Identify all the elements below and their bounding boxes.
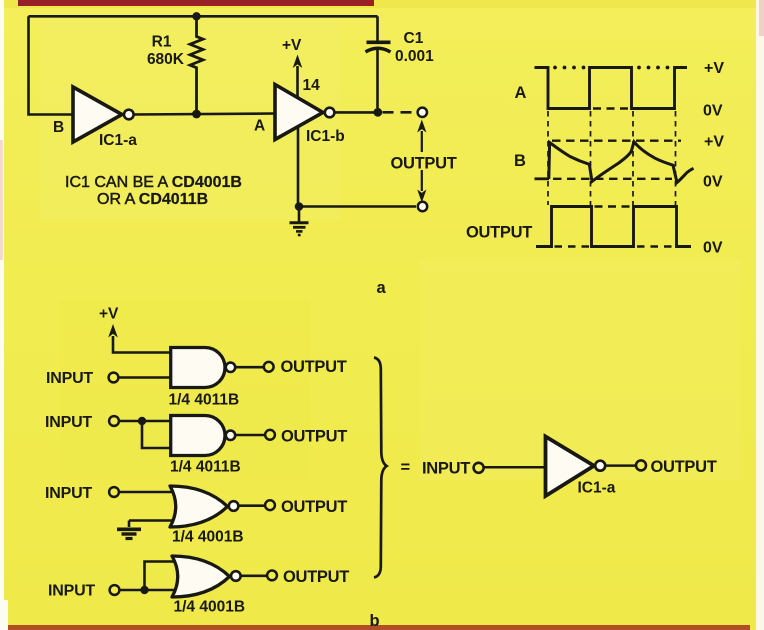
svg-text:INPUT: INPUT (48, 583, 95, 600)
node junction at ground (295, 202, 304, 211)
svg-text:1/4 4011B: 1/4 4011B (169, 392, 240, 409)
gate G4 output bubble (231, 571, 241, 581)
wire input to inverter IC1-a equivalent (484, 466, 546, 469)
waveform B trace (RC exponential) (549, 142, 694, 183)
terminal input row 1 (109, 373, 119, 383)
terminal output row 1 (264, 362, 274, 372)
inverter IC1-a output bubble (124, 110, 134, 120)
terminal input row 2 (109, 416, 119, 426)
svg-text:INPUT: INPUT (45, 485, 92, 502)
timing dashed vertical line t1 (547, 111, 549, 205)
svg-text:0V: 0V (703, 174, 723, 191)
svg-text:OUTPUT: OUTPUT (283, 568, 349, 586)
svg-text:0.001: 0.001 (395, 48, 434, 65)
waveform OUTPUT dashed high reference (595, 205, 632, 207)
inverter IC1-a (triangle) (73, 87, 122, 142)
svg-text:IC1-a: IC1-a (99, 132, 137, 149)
wire input row 2 to G2 top input (119, 420, 171, 423)
gate G1 output bubble (226, 363, 235, 372)
waveform A trace (535, 68, 688, 109)
inverter equivalent output bubble (595, 461, 605, 471)
terminal input equivalent (474, 463, 484, 473)
svg-text:b: b (370, 612, 380, 630)
terminal output top (open circle) (418, 108, 427, 117)
svg-text:INPUT: INPUT (45, 414, 92, 431)
inverter IC1-b output bubble (325, 108, 335, 118)
wire dashed node to output terminal (383, 111, 417, 114)
timing dashed vertical line t2 (590, 111, 592, 205)
wire G3 bottom input to ground (129, 519, 177, 522)
waveform B dashed 0V reference (553, 178, 672, 180)
wire inverter output (606, 464, 635, 467)
wire feedback left vertical to IC1-a input B (29, 16, 74, 114)
brace grouping gates (374, 358, 387, 578)
terminal output row 3 (265, 500, 275, 510)
wire input row 1 to G1 (119, 376, 171, 379)
svg-text:OUTPUT: OUTPUT (651, 458, 717, 476)
timing dashed vertical line t3 (632, 111, 634, 205)
node junction R1 bottom on A net (192, 110, 201, 119)
svg-text:a: a (377, 279, 387, 297)
node tie junction row 4 (140, 586, 148, 594)
wire ground rail to bottom terminal (299, 205, 416, 208)
svg-text:OUTPUT: OUTPUT (466, 224, 532, 242)
svg-text:0V: 0V (703, 103, 723, 120)
node tie junction row 2 (138, 417, 146, 425)
wire top rail (29, 15, 378, 18)
svg-text:OUTPUT: OUTPUT (281, 428, 347, 446)
svg-text:+V: +V (99, 306, 119, 323)
svg-text:B: B (514, 152, 526, 170)
wire G1 output (236, 366, 264, 369)
wire tie row 4 up to G4 top input (145, 562, 180, 591)
waveform B 0V left stub (535, 177, 550, 180)
node output junction (373, 108, 382, 117)
NAND gate G2 (1/4 4011B) (171, 416, 225, 456)
arrow up to output terminal (421, 131, 423, 152)
wire +V supply arrow into IC1-b pin 14 (296, 66, 299, 113)
capacitor C1 (376, 16, 379, 40)
svg-text:OUTPUT: OUTPUT (391, 155, 457, 173)
NAND gate G1 (1/4 4011B) (171, 348, 225, 388)
svg-text:C1: C1 (404, 30, 424, 47)
svg-text:INPUT: INPUT (422, 460, 470, 478)
terminal output row 2 (265, 430, 275, 440)
waveform A dashed 0V reference (593, 107, 629, 109)
waveform OUTPUT dashed 0V reference right (637, 245, 674, 247)
inverter IC1-b (triangle) (275, 85, 323, 140)
svg-text:IC1-a: IC1-a (578, 480, 616, 497)
waveform OUTPUT dashed 0V reference left (555, 245, 590, 247)
NOR gate G4 (1/4 4001B) (172, 556, 230, 597)
wire G3 output (239, 504, 265, 507)
svg-text:1/4 4011B: 1/4 4011B (170, 459, 241, 476)
wire input row 4 to G4 bottom input (120, 589, 182, 592)
svg-text:A: A (515, 84, 527, 102)
arrow down to lower output terminal (421, 170, 423, 191)
svg-text:1/4 4001B: 1/4 4001B (172, 529, 244, 546)
waveform B dashed +V reference (552, 139, 681, 141)
svg-text:B: B (53, 119, 64, 136)
NOR gate G3 (1/4 4001B) (170, 486, 228, 527)
gate G2 output bubble (226, 431, 235, 440)
terminal output bottom (open circle) (418, 202, 427, 211)
svg-text:INPUT: INPUT (46, 370, 93, 387)
svg-text:IC1-b: IC1-b (306, 128, 345, 145)
wire IC1-b ground pin vertical (297, 113, 300, 207)
svg-text:IC1 CAN BE A CD4001B: IC1 CAN BE A CD4001B (65, 174, 242, 191)
svg-text:OR A CD4011B: OR A CD4011B (97, 191, 208, 208)
wire G2 output (236, 434, 265, 437)
waveform A dotted +V reference 1 (553, 66, 585, 70)
terminal input row 4 (110, 585, 120, 595)
svg-text:=: = (401, 459, 411, 477)
ground symbol row 3 (128, 521, 131, 528)
svg-text:+V: +V (704, 60, 724, 77)
svg-text:A: A (254, 118, 265, 135)
svg-text:+V: +V (282, 37, 302, 54)
wire input row 3 to G3 top input (119, 491, 176, 494)
inverter IC1-a equivalent (triangle) (546, 437, 595, 497)
waveform A dotted +V reference 2 (637, 66, 669, 70)
wire G4 output (241, 574, 267, 577)
svg-text:+V: +V (704, 134, 724, 151)
svg-text:0V: 0V (703, 240, 723, 257)
terminal input row 3 (109, 487, 119, 497)
wire +V arrow to G1 top input (113, 336, 171, 353)
svg-text:OUTPUT: OUTPUT (281, 498, 347, 516)
waveform OUTPUT trace (536, 207, 691, 247)
resistor R1 (190, 16, 203, 114)
timing dashed vertical line t4 (675, 111, 677, 205)
terminal output row 4 (267, 571, 277, 581)
ground symbol under IC1-b (298, 207, 301, 222)
svg-text:680K: 680K (147, 51, 185, 68)
wire IC1-b output to node (334, 111, 374, 114)
node junction R1 top (192, 12, 200, 20)
svg-text:14: 14 (303, 77, 321, 94)
svg-text:1/4 4001B: 1/4 4001B (174, 599, 246, 616)
wire IC1-a output to IC1-b input (node A) (133, 114, 275, 115)
svg-text:OUTPUT: OUTPUT (281, 358, 347, 376)
svg-text:R1: R1 (152, 34, 172, 51)
gate G3 output bubble (229, 501, 239, 511)
terminal output equivalent (636, 460, 646, 470)
wire tie row 2 to G2 bottom input (142, 421, 171, 448)
